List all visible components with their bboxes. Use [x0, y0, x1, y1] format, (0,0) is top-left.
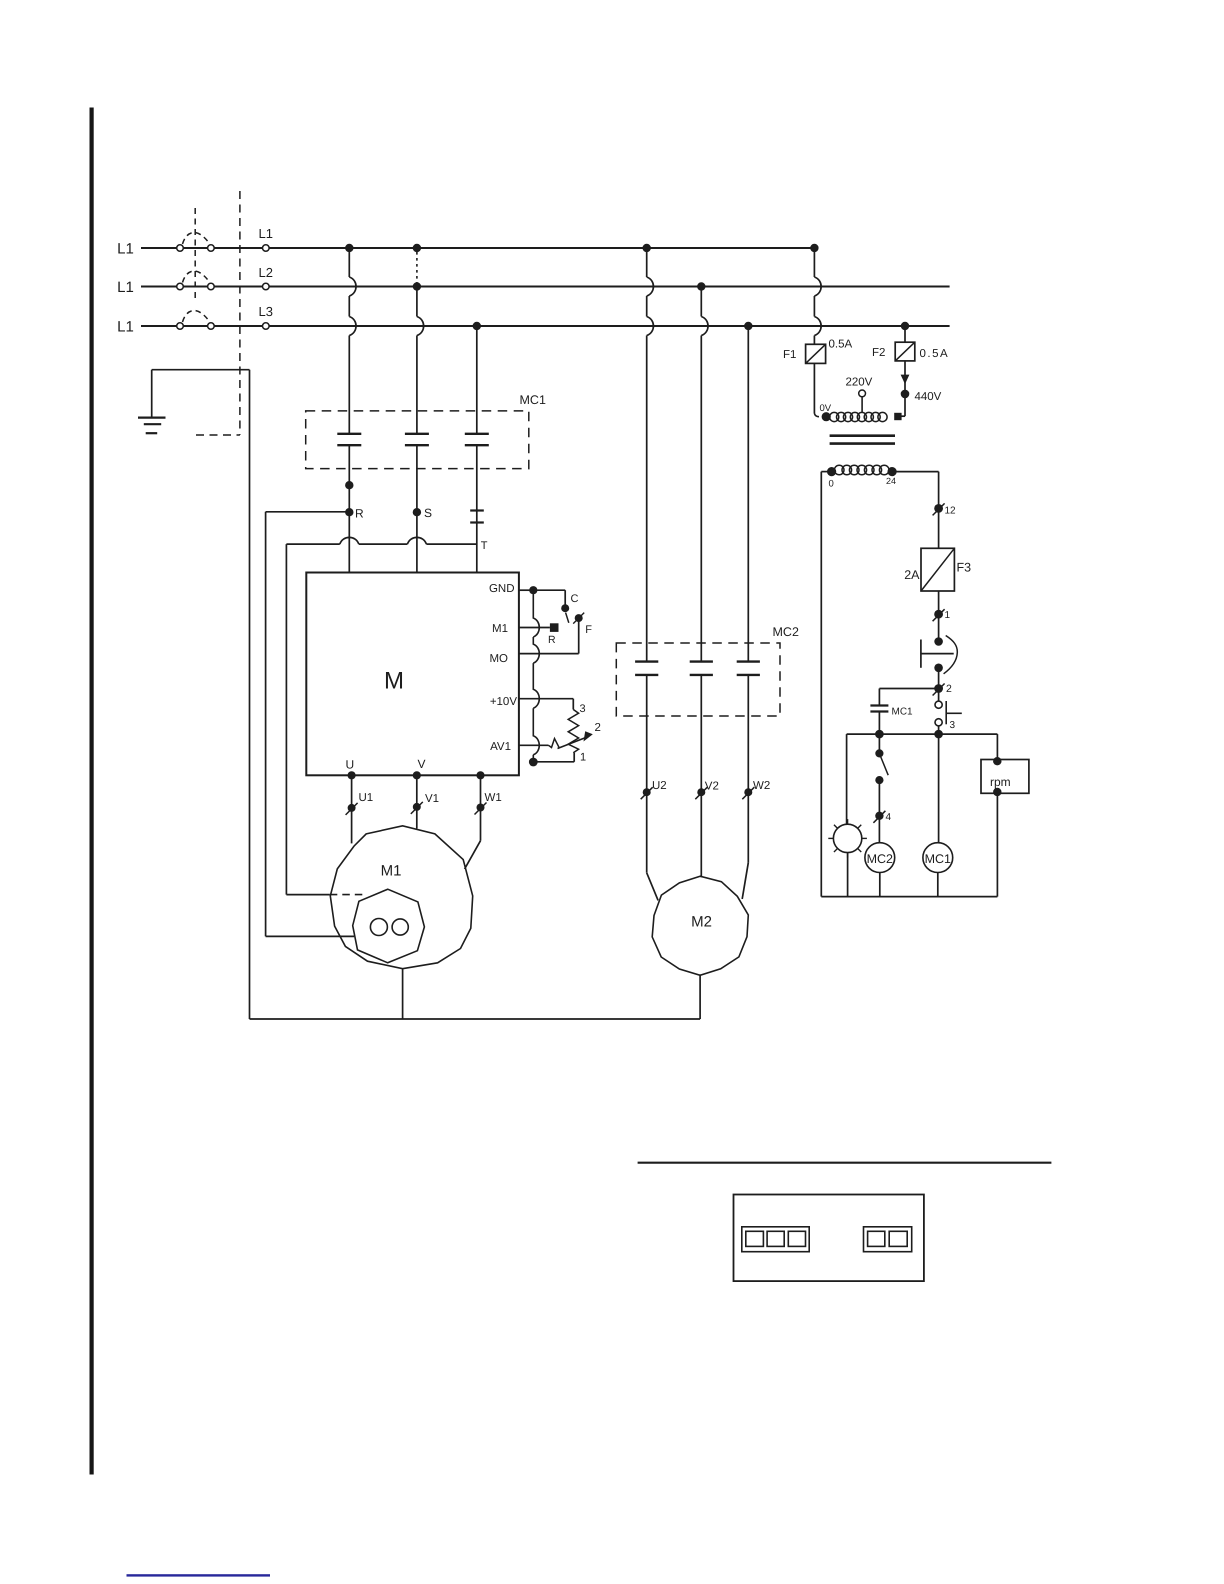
motor M2 body [652, 876, 748, 975]
wire lamp to bottom [847, 853, 849, 897]
terminal L1 with label [263, 245, 270, 252]
switch Q1 pole 1 blade [183, 233, 208, 244]
svg-text:F: F [585, 624, 592, 636]
wire L2 phase bus [141, 286, 950, 288]
pushbutton start (3) [935, 701, 942, 708]
svg-text:C: C [571, 593, 579, 605]
T line isolation ticks [470, 509, 484, 511]
node on L1 (dotted link) [413, 244, 421, 252]
svg-text:0.5A: 0.5A [920, 348, 950, 360]
wire shield to pot pin 1 [537, 761, 574, 763]
svg-text:MO: MO [489, 653, 508, 665]
contact C node + label [561, 604, 569, 612]
wire F3 to terminal 1 [938, 591, 940, 614]
wire W2-phase drop [747, 326, 749, 662]
wire U2-phase drop [646, 248, 648, 277]
svg-text:F3: F3 [957, 561, 972, 575]
wire T to motor (left run with hops) [286, 543, 339, 545]
ground rail (bottom) [250, 1018, 701, 1020]
motor M1 encoder housing [353, 889, 425, 963]
wire T below MC1 [476, 445, 478, 572]
svg-text:MC2: MC2 [773, 625, 799, 639]
svg-text:L1: L1 [259, 226, 273, 241]
wire 24 to terminal 12 [892, 471, 939, 473]
wire R to motor frame (left run) [266, 511, 346, 513]
connector panel outline [734, 1195, 924, 1282]
rpm unit bottom node [993, 788, 1001, 796]
svg-text:MC1: MC1 [520, 393, 546, 407]
indicator lamp [833, 824, 861, 852]
fuse F3 [921, 548, 954, 591]
wire MC2 coil to bottom [879, 873, 881, 897]
node rail-MC2 branch [875, 730, 884, 739]
terminal W1 + label [477, 804, 485, 812]
arrow 440V selector [901, 375, 910, 385]
svg-text:MC1: MC1 [892, 707, 914, 718]
wire terminal 2 branch to MC1 aux [879, 688, 938, 690]
MC2 branch lower node [875, 776, 883, 784]
svg-text:2: 2 [946, 683, 952, 695]
rpm unit box [981, 760, 1029, 794]
wire drop to fuse F1 [813, 248, 815, 277]
svg-text:L1: L1 [117, 319, 134, 336]
MC2 branch upper node [875, 749, 883, 757]
contact F node + label [575, 614, 583, 622]
wire to terminal 4 [878, 780, 880, 816]
terminal V1 + label [413, 803, 421, 811]
terminal 12 + label [934, 504, 943, 513]
node on L2 (V2 drop) [697, 282, 705, 290]
wire 12 to F3 [938, 508, 940, 548]
transformer core [830, 434, 895, 437]
rpm unit top node [993, 757, 1001, 765]
pin U node + label [348, 771, 356, 779]
svg-text:R: R [548, 634, 556, 646]
wire terminal 4 to MC2 coil [878, 816, 880, 843]
wire stop switch to terminal 2 [938, 668, 940, 689]
svg-text:L2: L2 [259, 265, 273, 280]
potentiometer body (zigzag) [568, 710, 578, 753]
stop switch lower node [934, 664, 943, 673]
wire rail to lamp [846, 734, 848, 824]
node 440V + label [901, 390, 910, 399]
transformer secondary winding [834, 465, 844, 475]
MC2 contact W2 plates [737, 660, 760, 662]
svg-text:2: 2 [595, 722, 601, 734]
MC1 contact R plates [337, 433, 361, 435]
wire MC1 coil to bottom [937, 873, 939, 897]
wire GND pin [519, 589, 533, 591]
pot wiper arrow [558, 737, 587, 748]
coil MC2 [865, 843, 895, 873]
svg-text:F1: F1 [783, 349, 796, 361]
cable shield node [529, 758, 538, 767]
svg-text:S: S [424, 506, 432, 520]
wire V2 below MC2 [700, 675, 702, 877]
wire S-phase drop [416, 287, 418, 317]
secondary node 24 + label [888, 467, 897, 476]
svg-text:M: M [384, 668, 404, 695]
tap 220V + label [859, 390, 866, 397]
wire drop to fuse F2 [904, 326, 906, 342]
switch Q1 pole 3 contacts [177, 323, 184, 330]
svg-text:3: 3 [950, 720, 956, 731]
wire R-phase drop [348, 248, 350, 277]
terminal block left cell 2 [767, 1231, 784, 1246]
wire L1 phase bus [141, 247, 815, 249]
node on L1 (F1 drop) [810, 244, 818, 252]
terminal 4 + label [875, 812, 883, 820]
switch Q1 pole 1 contacts [177, 245, 184, 252]
terminal R node + label [345, 508, 353, 516]
separator rule [638, 1162, 1052, 1164]
svg-text:V1: V1 [425, 793, 439, 805]
terminal block left cell 1 [746, 1231, 764, 1246]
MC1 contact T plates [465, 433, 489, 435]
wire V to motor M1 [416, 775, 418, 828]
dashed wire into motor M1 [330, 894, 366, 896]
svg-text:M1: M1 [492, 623, 508, 635]
svg-text:W1: W1 [485, 792, 502, 804]
terminal block left cell 3 [788, 1231, 805, 1246]
terminal block left outline [742, 1227, 809, 1252]
plug R (filled square) + label [550, 623, 559, 632]
wire motor M2 to ground rail [699, 974, 701, 1019]
wire AV1 to wiper (zigzag) [519, 744, 549, 746]
wire V2-phase drop [700, 287, 702, 317]
terminal L2 with label [263, 283, 270, 290]
wire rpm unit to bottom [996, 793, 998, 896]
svg-text:24: 24 [886, 476, 896, 486]
wire rail to rpm unit [996, 734, 998, 759]
node on L3 (F2 drop) [901, 322, 909, 330]
node below MC1 on R [345, 481, 353, 489]
MC1 auxiliary contact [870, 704, 888, 706]
control rail [847, 733, 998, 735]
inverter M box [306, 573, 519, 776]
svg-text:3: 3 [580, 703, 586, 715]
contactor MC1 dashed box [306, 411, 529, 469]
stop switch upper node [934, 637, 943, 646]
encoder eyelet left [370, 919, 387, 936]
wire F1 to transformer 0V [813, 363, 815, 413]
ground wire from enclosure [152, 369, 250, 371]
wire S below MC1 [416, 445, 418, 572]
wire F to MO pin [578, 622, 580, 654]
terminal 1 + label [934, 610, 943, 619]
wire W to motor M1 [480, 775, 482, 840]
svg-text:L1: L1 [117, 241, 134, 258]
MC1 contact S plates [405, 433, 429, 435]
control loop left wire [821, 471, 831, 473]
enclosure boundary dashed horizontal [196, 434, 240, 436]
switch Q1 linkage (dashed) [194, 208, 196, 301]
svg-text:M2: M2 [691, 914, 712, 931]
fuse F1 [806, 344, 826, 363]
wire ground return (left vertical) [249, 370, 251, 1019]
coil MC1 [923, 843, 953, 873]
svg-text:1: 1 [945, 610, 951, 621]
svg-text:0.5A: 0.5A [829, 339, 853, 351]
fuse F2 [895, 342, 915, 361]
wire U to motor M1 [351, 775, 353, 843]
svg-text:V2: V2 [705, 781, 719, 793]
svg-text:MC1: MC1 [925, 852, 951, 866]
svg-text:2A: 2A [904, 568, 920, 582]
svg-text:12: 12 [945, 506, 957, 517]
node on L3 (W2 drop) [744, 322, 752, 330]
svg-text:AV1: AV1 [490, 741, 511, 753]
svg-text:L3: L3 [259, 304, 273, 319]
encoder eyelet right [392, 919, 408, 935]
terminal V2 + label [697, 788, 705, 796]
terminal L3 with label [263, 323, 270, 330]
svg-text:U2: U2 [652, 780, 667, 792]
stop switch actuator [920, 640, 922, 668]
wire R below MC1 [348, 445, 350, 572]
switch Q1 pole 2 contacts [177, 283, 184, 290]
wire T-phase drop [476, 326, 478, 434]
terminal U1 + label [348, 804, 356, 812]
MC2 contact U2 plates [635, 660, 658, 662]
wire W2 below MC2 [747, 675, 749, 863]
svg-text:L1: L1 [117, 279, 134, 296]
wire L3 phase bus [141, 325, 950, 327]
wire M1 pin to R plug [519, 627, 550, 629]
node on L3 (T drop) [473, 322, 481, 330]
svg-text:MC2: MC2 [867, 852, 893, 866]
svg-text:F2: F2 [872, 347, 885, 359]
svg-text:T: T [481, 540, 488, 552]
svg-text:1: 1 [580, 752, 586, 764]
switch Q1 pole 3 blade [183, 311, 208, 322]
svg-text:R: R [355, 507, 364, 521]
MC2 contact V2 plates [690, 660, 713, 662]
wire +10V to pot pin 3 [519, 698, 573, 700]
transformer primary right node [894, 413, 901, 420]
svg-text:+10V: +10V [490, 696, 518, 708]
svg-text:M1: M1 [381, 863, 402, 880]
terminal S node + label [413, 508, 421, 516]
dotted link L1-L2 [416, 252, 418, 283]
node on L1 (U2 drop) [643, 244, 651, 252]
pin W node [476, 771, 484, 779]
terminal block right outline [864, 1227, 912, 1252]
wire rail to MC1 coil [938, 734, 940, 843]
motor M1 body [330, 826, 472, 969]
transformer primary winding [830, 412, 839, 421]
node rail-MC1 branch [934, 730, 943, 739]
ground symbol [138, 417, 166, 419]
contactor MC2 dashed box [616, 643, 780, 716]
wire MC1 aux to rail [878, 712, 880, 735]
page left border bar [90, 108, 94, 1475]
svg-text:440V: 440V [915, 391, 942, 403]
node on L1 (R drop) [345, 244, 353, 252]
svg-text:W2: W2 [753, 780, 770, 792]
svg-text:V: V [418, 757, 426, 771]
terminal U2 + label [643, 788, 651, 796]
svg-text:rpm: rpm [990, 775, 1011, 789]
svg-text:0: 0 [829, 479, 834, 490]
footer blue rule [127, 1574, 271, 1576]
terminal W2 + label [744, 788, 752, 796]
wire motor M1 to ground rail [402, 969, 404, 1019]
svg-text:4: 4 [886, 812, 892, 823]
terminal block right cell 1 [868, 1231, 885, 1246]
node on L2 (S drop) [413, 282, 421, 290]
terminal 2 + label [934, 684, 943, 693]
svg-text:220V: 220V [846, 377, 873, 389]
terminal block right cell 2 [889, 1231, 907, 1246]
secondary node 0 + label [827, 467, 836, 476]
wire F2 to 440V tap [904, 361, 906, 416]
svg-text:U: U [346, 758, 355, 772]
wire U2 below MC2 [646, 675, 648, 873]
svg-text:GND: GND [489, 583, 515, 595]
control loop bottom wire [821, 896, 997, 898]
pin V node + label [413, 771, 421, 779]
enclosure boundary dashed vertical [239, 191, 241, 435]
transformer primary left node [822, 412, 831, 421]
selector blade C-F [566, 613, 569, 623]
wire terminal 1 to stop switch [938, 614, 940, 641]
svg-text:U1: U1 [359, 792, 374, 804]
switch Q1 pole 2 blade [183, 271, 208, 282]
shielded cable GND to AV1 (wavy) [533, 594, 539, 758]
aux switch blade (MC2 branch) [878, 734, 880, 753]
